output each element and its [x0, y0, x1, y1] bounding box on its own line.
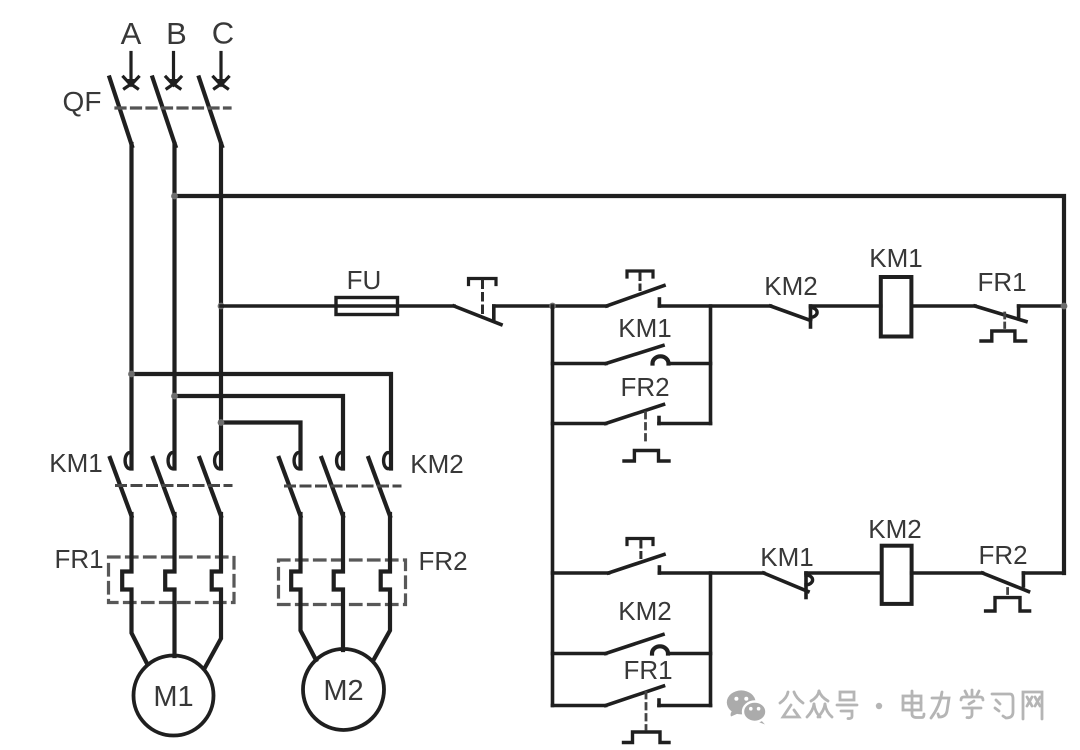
wire rung1 to coil KM1: [811, 304, 881, 308]
stop button SB1 right terminal stub: [492, 306, 496, 320]
NC interlock KM1 blade: [764, 573, 808, 592]
NC interlock KM2 hook: [811, 308, 818, 318]
junction dot A branch: [128, 371, 135, 378]
thermal relay FR1 dashed box: [109, 557, 235, 603]
contactor KM1 linkage dashed: [117, 484, 232, 487]
svg-text:M1: M1: [153, 681, 193, 713]
svg-text:FR1: FR1: [54, 544, 103, 574]
stop button SB1 actuator stem dashed: [481, 281, 484, 315]
thermal relay FR1 heater 1 and wire to motor: [122, 514, 147, 665]
NC contact FR1 blade: [975, 306, 1026, 322]
motor M2: [303, 649, 384, 730]
wire rung2 after SB3: [659, 571, 763, 575]
wire phase B vertical: [172, 144, 176, 469]
contactor KM1 pole 3 blade: [200, 458, 222, 516]
svg-text:KM1: KM1: [760, 542, 813, 572]
fuse FU label: [347, 265, 382, 295]
NC interlock KM1 label: [760, 542, 813, 572]
NC contact FR1 label rung2: [623, 655, 672, 685]
stop button SB1 actuator bar: [469, 279, 497, 285]
coil KM1 body: [881, 277, 912, 337]
aux contact KM2 right wire: [668, 652, 711, 656]
char wang: [1023, 692, 1042, 719]
wire branch C to KM2: [221, 423, 301, 469]
NC contact FR2 left wire: [553, 422, 606, 426]
contactor KM2 main contacts label: [410, 449, 463, 479]
junction dot control node: [549, 303, 556, 310]
svg-text:KM1: KM1: [49, 448, 102, 478]
svg-text:FR2: FR2: [620, 372, 669, 402]
arrow phase C: [214, 53, 229, 89]
NC contact FR2 label rung1: [620, 372, 669, 402]
contactor KM2 linkage dashed: [286, 485, 401, 488]
contactor KM2 pole 2 hook: [337, 453, 343, 469]
contactor KM1 pole 2 hook: [168, 453, 174, 469]
breaker QF pole 3 blade: [199, 78, 222, 147]
watermark wechat icon: [727, 690, 767, 724]
aux contact KM2 left wire: [553, 652, 606, 656]
NC contact FR2 rung2 thermal element: [986, 598, 1030, 611]
aux contact KM1 blade: [606, 346, 663, 364]
start button SB3 actuator bar: [627, 539, 653, 545]
start button SB2 actuator stem dashed: [639, 274, 642, 290]
svg-text:KM1: KM1: [869, 243, 922, 273]
aux contact KM2 dome: [652, 646, 668, 653]
wire phase A vertical: [129, 144, 133, 469]
aux contact KM1 dome: [653, 356, 669, 363]
NC contact FR2 label rung2: [978, 540, 1027, 570]
contactor KM2 pole 2 blade: [322, 458, 344, 516]
NC interlock KM1 stub: [804, 573, 808, 598]
wire top bus from B and right bus: [175, 196, 1065, 573]
NC contact FR1 rung2 right tick: [657, 700, 661, 706]
NC contact FR1 rung2 blade: [606, 686, 664, 706]
aux contact KM2 self-hold label: [618, 596, 671, 626]
breaker QF label: [63, 86, 102, 117]
char xi: [992, 694, 1013, 718]
NC contact FR2 rung2 stub: [1022, 573, 1026, 586]
wire left rail vertical: [551, 306, 555, 706]
NC contact FR1 label rung1: [977, 267, 1026, 297]
NC interlock KM1 hook: [806, 575, 813, 585]
thermal relay FR1 label: [54, 544, 103, 574]
fuse FU body: [336, 298, 398, 315]
contactor KM1 main contacts label: [49, 448, 102, 478]
start button SB3 actuator stem dashed: [639, 541, 642, 558]
thermal relay FR2 heater 1 and wire to motor: [291, 514, 316, 660]
svg-text:KM1: KM1: [618, 313, 671, 343]
char dian: [903, 691, 924, 718]
thermal relay FR2 heater 3 and wire to motor: [374, 514, 391, 660]
NC contact FR2 right tick: [657, 418, 661, 424]
svg-text:KM2: KM2: [618, 596, 671, 626]
motor M1: [134, 656, 214, 736]
svg-text:QF: QF: [63, 86, 102, 117]
NC contact FR1 rung2 thermal element: [624, 732, 670, 743]
node A phase label: [121, 16, 142, 51]
contactor KM1 pole 3 hook: [215, 453, 221, 469]
char xue: [961, 690, 983, 718]
wire rung 2 start: [553, 571, 609, 575]
start button SB3 blade: [609, 555, 665, 574]
start button SB2 blade: [607, 286, 664, 307]
contactor KM1 pole 1 blade: [110, 458, 132, 516]
arrow phase A: [124, 53, 139, 89]
thermal relay FR2 dashed box: [279, 560, 406, 605]
svg-text:A: A: [121, 16, 142, 51]
NC contact FR1 stem dashed: [1003, 313, 1006, 328]
junction dot B branch: [171, 393, 178, 400]
wire right rail rung1 parallel: [709, 306, 713, 424]
NC contact FR2 stem dashed: [644, 413, 647, 445]
thermal relay FR1 heater 3 and wire to motor: [205, 514, 221, 668]
aux contact KM1 left wire: [553, 362, 607, 366]
contactor KM2 pole 3 hook: [384, 453, 390, 469]
watermark text 公众号·电力学习网 (hand-drawn strokes): [780, 690, 1042, 719]
char zhong: [807, 691, 832, 717]
svg-text:FR1: FR1: [977, 267, 1026, 297]
arrow phase B: [166, 53, 181, 89]
svg-text:M2: M2: [323, 675, 363, 707]
separator dot: [876, 703, 882, 709]
NC contact FR1 stub: [1017, 306, 1021, 318]
wire right rail rung2 parallel: [709, 573, 713, 706]
svg-text:KM2: KM2: [868, 514, 921, 544]
NC contact FR2 rung2 right wire: [1023, 571, 1064, 575]
svg-text:FU: FU: [347, 265, 382, 295]
wire control rung 1 left segment through fuse: [221, 304, 454, 308]
NC contact FR2 right wire: [659, 422, 711, 426]
svg-text:B: B: [166, 16, 187, 51]
NC contact FR1 thermal element: [981, 331, 1026, 341]
start button SB3 right tick: [658, 567, 662, 573]
wire rung2 coil to FR2: [912, 571, 983, 575]
junction dot C control rung: [218, 303, 225, 310]
node C phase label: [212, 16, 234, 51]
wire phase C vertical: [219, 144, 223, 469]
contactor KM1 pole 2 blade: [153, 458, 175, 516]
svg-text:FR2: FR2: [418, 546, 467, 576]
junction dot B top bus: [171, 193, 178, 200]
NC contact FR1 rung2 left wire: [553, 704, 606, 708]
wire rung1 coil to FR1: [911, 304, 975, 308]
aux contact KM1 right wire: [669, 362, 711, 366]
start button SB2 actuator bar: [627, 271, 653, 277]
junction dot right bus rung1: [1061, 303, 1068, 310]
NC contact FR2 blade: [606, 405, 664, 424]
contactor KM1 pole 1 hook: [125, 453, 131, 469]
char li: [931, 692, 949, 718]
breaker QF pole 1 blade: [110, 78, 133, 147]
wire branch B to KM2: [175, 396, 344, 469]
svg-text:FR2: FR2: [978, 540, 1027, 570]
contactor KM2 pole 1 blade: [279, 458, 301, 516]
NC contact FR1 right wire: [1019, 304, 1064, 308]
breaker QF pole 2 blade: [153, 78, 176, 147]
start button SB2 right terminal tick: [658, 299, 662, 306]
NC interlock KM2 blade: [771, 306, 811, 321]
coil KM2 body: [882, 546, 912, 604]
svg-text:KM2: KM2: [764, 271, 817, 301]
svg-text:KM2: KM2: [410, 449, 463, 479]
wire rung2 to coil KM2: [806, 571, 882, 575]
contactor KM2 pole 3 blade: [369, 458, 391, 516]
wire rung1 node segment: [494, 304, 607, 308]
char gong: [780, 692, 803, 717]
junction dot C branch: [218, 419, 225, 426]
NC contact FR1 rung2 right wire: [659, 704, 711, 708]
coil KM2 label: [868, 514, 921, 544]
thermal relay FR2 heater 2 and wire to motor: [334, 514, 343, 650]
wire rung1 after SB2: [659, 304, 770, 308]
svg-text:C: C: [212, 16, 234, 51]
wire branch A to KM2: [132, 374, 392, 469]
thermal relay FR1 heater 2 and wire to motor: [165, 514, 174, 656]
NC interlock KM2 stub: [809, 306, 813, 327]
aux contact KM2 blade: [606, 635, 663, 654]
coil KM1 label: [869, 243, 922, 273]
node B phase label: [166, 16, 187, 51]
breaker QF linkage dashed: [116, 106, 230, 109]
svg-text:FR1: FR1: [623, 655, 672, 685]
stop button SB1 blade: [454, 306, 501, 325]
contactor KM2 pole 1 hook: [294, 453, 300, 469]
NC contact FR2 rung2 blade: [983, 573, 1029, 592]
aux contact KM1 self-hold label: [618, 313, 671, 343]
NC contact FR1 rung2 stem dashed: [645, 693, 648, 730]
NC interlock KM2 label: [764, 271, 817, 301]
thermal relay FR2 label: [418, 546, 467, 576]
NC contact FR2 rung2 stem dashed: [1006, 589, 1009, 599]
NC contact FR2 thermal element: [624, 451, 669, 462]
char hao: [837, 692, 857, 719]
